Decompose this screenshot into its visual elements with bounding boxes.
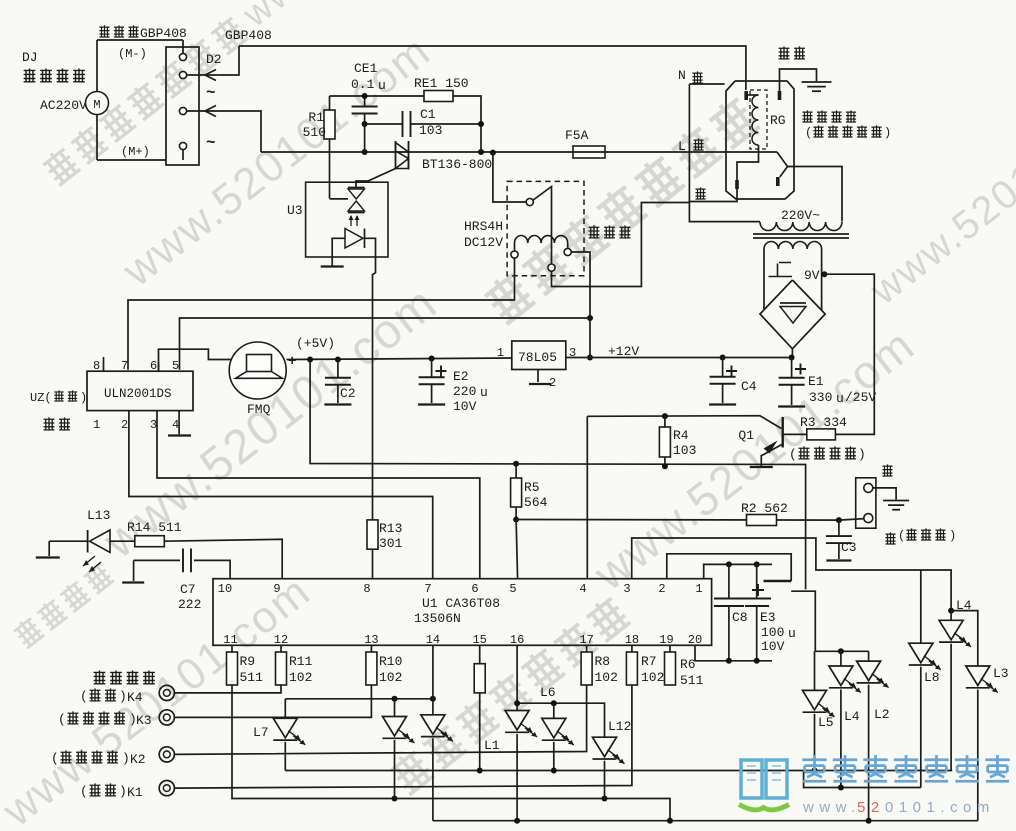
svg-text:HRS4H: HRS4H (464, 219, 503, 234)
node R4 bottom (662, 463, 668, 469)
svg-text:BT136-800: BT136-800 (422, 157, 492, 172)
svg-text:RG: RG (770, 113, 786, 128)
relay contact fixed (526, 198, 533, 205)
bridge rectifier diamond (760, 280, 825, 349)
svg-text:100: 100 (761, 625, 784, 640)
wire U3 led right down to R13 (365, 238, 376, 520)
key K2 倍速豆浆 (51, 747, 174, 767)
led L3 (951, 611, 1009, 821)
svg-text:R14 511: R14 511 (127, 520, 182, 535)
wire snubber top rail (330, 96, 482, 152)
svg-text:C8: C8 (732, 610, 748, 625)
capacitor CE1 (351, 61, 386, 152)
svg-text:103: 103 (673, 443, 696, 458)
label （防溢出） (898, 528, 956, 543)
svg-text:R11: R11 (289, 654, 313, 669)
connector 防溢出 probe (856, 478, 876, 528)
svg-text:(: ( (80, 784, 88, 799)
node R9 row L? (392, 796, 398, 802)
led L2 (857, 651, 890, 820)
svg-text:K2: K2 (130, 752, 146, 767)
svg-text:R8: R8 (595, 654, 611, 669)
motor M (86, 40, 109, 160)
svg-text:10V: 10V (761, 639, 785, 654)
svg-text:(: ( (58, 712, 66, 727)
svg-text:17: 17 (579, 633, 593, 647)
label UZ（贴片）驱动 (30, 390, 87, 430)
relay HRS4H dashed box (507, 181, 584, 275)
transformer primary (760, 222, 842, 231)
svg-text:20: 20 (688, 633, 702, 647)
svg-text:): ) (119, 784, 127, 799)
wire relay coil left to ULN pin7 (128, 258, 515, 370)
resistor pin15 unlabeled (474, 645, 485, 693)
node row2 L6 (551, 768, 557, 774)
triac BT136-800 (396, 141, 493, 172)
svg-text:102: 102 (289, 670, 312, 685)
svg-text:14: 14 (426, 633, 440, 647)
svg-text:R6: R6 (680, 657, 696, 672)
svg-text:R5: R5 (524, 480, 540, 495)
svg-text:222: 222 (178, 597, 201, 612)
svg-text:220: 220 (453, 384, 476, 399)
node +5V drop (307, 357, 313, 363)
svg-text:R1: R1 (308, 110, 324, 125)
svg-text:UZ(: UZ( (30, 391, 52, 405)
U1 pin numbers bottom (223, 633, 702, 647)
svg-text:220V~: 220V~ (781, 208, 820, 223)
relay coil (511, 236, 571, 259)
wire R2 row (516, 520, 839, 579)
led L13 (49, 508, 135, 572)
fuse F5A (565, 128, 605, 158)
opto-triac U3 (287, 182, 388, 257)
wire bridge out to +12V (791, 349, 793, 358)
wire socket bottom-left pin to bundle (689, 189, 737, 202)
ground L13 (36, 541, 60, 557)
svg-text:C1: C1 (420, 107, 436, 122)
U1 pin numbers top (218, 582, 703, 596)
node E1 (789, 355, 795, 361)
node row A mid (392, 696, 398, 702)
svg-text:78L05: 78L05 (518, 350, 557, 365)
svg-text:C3: C3 (841, 540, 857, 555)
svg-text:DJ: DJ (22, 50, 38, 65)
wire ULN pin3 to U1 pin6 (157, 411, 480, 579)
svg-text:): ) (119, 689, 127, 704)
node rail L2 (866, 818, 872, 824)
svg-text:10V: 10V (453, 399, 477, 414)
capacitor E2 electrolytic (418, 359, 488, 415)
svg-text:u: u (480, 385, 488, 400)
svg-text:CE1: CE1 (354, 61, 378, 76)
svg-text:K1: K1 (127, 785, 143, 800)
terminal block GBP408 (166, 40, 199, 165)
svg-text:): ) (858, 447, 866, 462)
capacitor C8 (714, 564, 748, 660)
bridge polarity mark (769, 263, 793, 277)
svg-text:(: ( (805, 126, 812, 140)
key K1 选择 (80, 781, 174, 801)
svg-text:E1: E1 (808, 374, 824, 389)
svg-text:/25V: /25V (845, 390, 876, 405)
svg-text:R9: R9 (240, 654, 256, 669)
svg-text:102: 102 (641, 670, 664, 685)
svg-text:R3 334: R3 334 (800, 415, 847, 430)
svg-text:C2: C2 (340, 386, 356, 401)
resistor R11 102 (276, 645, 313, 685)
svg-text:19: 19 (659, 633, 673, 647)
label 9V (804, 268, 820, 283)
resistor R6 511 (665, 645, 704, 688)
ULN pin labels top (93, 357, 179, 373)
svg-text:R7: R7 (641, 654, 657, 669)
node E3 top (754, 561, 760, 567)
svg-text:1: 1 (695, 582, 702, 596)
led L12 (593, 719, 632, 799)
wire heater bottom to pin (737, 145, 759, 180)
wire probe to earth (873, 488, 896, 500)
svg-text:13: 13 (364, 633, 378, 647)
U3 internal triac (348, 188, 365, 213)
label (M+) (121, 145, 150, 159)
label (+5V) (296, 336, 335, 351)
svg-text:L3: L3 (993, 666, 1009, 681)
wire U3 led left to ground (321, 238, 345, 266)
svg-text:6: 6 (471, 582, 478, 596)
svg-text:103: 103 (419, 123, 442, 138)
relay contact moving (548, 264, 555, 271)
node main line / relay (490, 150, 496, 156)
label HRS4H DC12V (464, 219, 503, 250)
svg-text:L7: L7 (253, 725, 269, 740)
node main line / RE1-C1 (478, 149, 484, 155)
capacitor C2 (324, 360, 355, 405)
wire 9V to R3 right (824, 274, 874, 434)
svg-text:L2: L2 (874, 707, 890, 722)
wire D2 to top (187, 46, 239, 81)
svg-text:+: + (288, 354, 296, 370)
node C2 (335, 357, 341, 363)
resistor R4 103 (659, 416, 696, 466)
socket pin bottom-right (776, 177, 780, 186)
label （过零检测） (789, 446, 866, 462)
label D2 (206, 52, 222, 67)
logo text 家电维修资料网 (802, 755, 1009, 781)
wire cable bundle vertical (689, 84, 760, 222)
wire E3 feed to L5 row (791, 591, 868, 651)
svg-text:511: 511 (680, 673, 704, 688)
svg-text:7: 7 (424, 582, 431, 596)
svg-text:11: 11 (223, 633, 237, 647)
svg-text:12: 12 (274, 633, 288, 647)
led mid unlabeled (383, 699, 415, 799)
wire R14 to U1 pin9 (164, 539, 282, 578)
svg-text:(+5V): (+5V) (296, 336, 335, 351)
label DJ 打浆电机 (22, 50, 85, 83)
heater RG dashed box (750, 90, 767, 149)
label 触摸按键 (94, 670, 155, 684)
capacitor C7 222 (134, 549, 231, 613)
node R5 top (513, 461, 519, 467)
wire node to +12V rail (587, 318, 593, 361)
svg-text:L6: L6 (540, 685, 556, 700)
wire R9 row (232, 685, 670, 821)
label 白 (695, 187, 705, 199)
logo url www.520101.com (802, 799, 995, 816)
svg-text:GBP408: GBP408 (140, 26, 187, 41)
svg-text:52: 52 (857, 799, 885, 816)
svg-text:E2: E2 (453, 369, 469, 384)
label 桶壁插座 (802, 110, 856, 122)
wire U3 internal left (330, 198, 349, 200)
svg-text:FMQ: FMQ (247, 402, 271, 417)
wire node to connector (839, 519, 865, 521)
wire +5V rail (287, 354, 512, 370)
wire motor box outline (97, 40, 183, 160)
svg-text:ULN2001DS: ULN2001DS (104, 387, 172, 401)
wire +12V rail (566, 357, 792, 359)
ground probe (883, 501, 909, 510)
svg-text:L5: L5 (818, 715, 834, 730)
svg-text:R13: R13 (379, 521, 402, 536)
wire pin1 to cap rail (704, 564, 772, 578)
node 9V (821, 271, 827, 277)
resistor R3 334 (800, 415, 847, 440)
svg-text:564: 564 (524, 495, 548, 510)
svg-text:AC220V: AC220V (40, 98, 87, 113)
svg-text:7: 7 (121, 359, 128, 373)
ground C7 (122, 560, 144, 582)
svg-text:www.: www. (802, 799, 861, 816)
svg-text:DC12V: DC12V (464, 235, 503, 250)
svg-text:K3: K3 (136, 713, 152, 728)
svg-text:GBP408: GBP408 (225, 28, 272, 43)
wire pin20 to cap bottoms (695, 645, 772, 664)
svg-text:301: 301 (379, 536, 403, 551)
wire K2 row (174, 685, 586, 754)
capacitor C1 103 (365, 107, 484, 138)
svg-text:4: 4 (172, 418, 179, 432)
socket octagon 桶壁插座 (726, 81, 794, 199)
label +12V (608, 344, 639, 359)
buzzer FMQ (229, 342, 286, 417)
resistor R1 (303, 96, 335, 199)
svg-text:8: 8 (93, 359, 100, 373)
wire ULN pin2 to U1 pin7 (129, 411, 433, 579)
svg-text:u: u (836, 391, 844, 406)
svg-text:L1: L1 (484, 738, 500, 753)
svg-text:E3: E3 (760, 610, 776, 625)
node row A pin14 (430, 696, 436, 702)
mcu U1 CA36T08 13506N (213, 579, 712, 646)
U3 internal led (345, 215, 365, 248)
svg-text:3: 3 (623, 582, 630, 596)
svg-text:0101.com: 0101.com (885, 799, 995, 816)
svg-text:1: 1 (93, 418, 100, 432)
led L5 (803, 651, 835, 770)
regulator 78L05 (497, 341, 576, 390)
key K4 启动 (80, 685, 174, 705)
wire ULN pin6 to FMQ (159, 349, 232, 371)
svg-text:16: 16 (510, 633, 524, 647)
led pin14 unlabeled (421, 645, 453, 820)
svg-text:5: 5 (172, 359, 179, 373)
led L4 mid (829, 651, 861, 787)
resistor R5 564 (511, 464, 548, 519)
resistor R2 562 (741, 501, 788, 526)
label GBP408 top (225, 28, 272, 43)
svg-text:2: 2 (121, 418, 128, 432)
node L4 right top (948, 608, 954, 614)
svg-text:(M-): (M-) (118, 47, 147, 61)
transistor Q1 (738, 417, 806, 466)
label L 红 (678, 138, 704, 154)
node relay/pin5 row (587, 315, 593, 321)
resistor R14 511 (127, 520, 182, 547)
bridge internal diode (780, 303, 806, 323)
svg-text:L4: L4 (844, 709, 860, 724)
wire +5V row (310, 360, 805, 590)
resistor R9 511 (227, 645, 264, 685)
resistor RE1 150 (414, 76, 469, 102)
label 整流桥GBP408 (99, 25, 186, 41)
label (M-) (118, 47, 147, 61)
svg-text:10: 10 (218, 582, 232, 596)
svg-text:R10: R10 (379, 654, 402, 669)
wire pin2 to E3 plus (667, 554, 791, 581)
ground earth 黄绿 (802, 82, 832, 91)
node rail R6 (667, 818, 673, 824)
node R5 bottom / pin5 (513, 517, 519, 523)
svg-text:1: 1 (497, 346, 504, 360)
wire AC input to main line (187, 106, 261, 153)
wire N to socket (689, 83, 724, 85)
resistor R10 102 (366, 645, 403, 685)
led L6 (540, 685, 574, 771)
socket pin top-right (778, 91, 782, 100)
label 蓝 probe (882, 464, 892, 476)
node C8 top (726, 561, 732, 567)
wire top-right pin to earth (780, 69, 817, 91)
svg-text:M: M (93, 98, 100, 112)
wire row B led tops (517, 645, 604, 737)
wire relay common from main line (493, 153, 526, 202)
wire K3 row (174, 685, 371, 717)
svg-text:L: L (678, 139, 686, 154)
wire relay coil right to +12V node (571, 252, 590, 315)
driver ULN2001DS (87, 371, 193, 410)
node main line / CE1 (362, 149, 368, 155)
svg-text:4: 4 (579, 582, 586, 596)
wire BT136 gate (356, 169, 396, 188)
wire pin3 to LED feed (632, 538, 951, 611)
ULN pin labels bottom (93, 418, 179, 432)
svg-text:(: ( (51, 751, 59, 766)
svg-text:RE1 150: RE1 150 (414, 76, 469, 91)
node row2 pin15 (477, 768, 483, 774)
svg-text:3: 3 (150, 418, 157, 432)
svg-text:(: ( (80, 689, 88, 704)
node L4mid top (838, 648, 844, 654)
transformer core (753, 234, 849, 238)
svg-text:13506N: 13506N (414, 611, 461, 626)
label 黄绿 (779, 46, 805, 59)
node segment L4mid (838, 785, 844, 791)
wire pin5 row (180, 318, 591, 370)
wire top GBP408 to socket (239, 46, 746, 90)
svg-text:15: 15 (472, 633, 486, 647)
svg-text:): ) (884, 126, 891, 140)
node row B L6 (551, 700, 557, 706)
label （内藏电热管） (805, 125, 891, 140)
svg-text:6: 6 (150, 359, 157, 373)
wire K4 row (174, 685, 281, 693)
svg-text:510: 510 (303, 125, 326, 140)
svg-text:C7: C7 (180, 582, 196, 597)
svg-text:u: u (378, 78, 386, 93)
ground Q1 emitter (750, 466, 773, 468)
svg-text:): ) (122, 751, 130, 766)
svg-text:9V: 9V (804, 268, 820, 283)
label 继电器 (589, 225, 631, 238)
capacitor E1 electrolytic (778, 358, 876, 407)
relay blade (533, 187, 551, 264)
wire L to socket pin and transformer (777, 152, 842, 222)
led L7 (253, 699, 305, 771)
resistor R7 102 (626, 645, 664, 685)
wire pin4 row (587, 416, 781, 579)
capacitor C4 (709, 358, 757, 405)
node row B pin16 (514, 700, 520, 706)
resistor R13 301 (367, 520, 403, 579)
label N 蓝 (678, 68, 703, 84)
svg-text:U3: U3 (287, 203, 303, 218)
svg-text:L12: L12 (608, 719, 631, 734)
node E2 (429, 356, 435, 362)
node C4 (720, 355, 726, 361)
wire main AC line (261, 151, 777, 153)
heater RG coil (746, 95, 758, 145)
ground ULN pin4 (168, 411, 191, 436)
label ~ upper (206, 84, 216, 102)
led L1 (484, 711, 537, 821)
socket pin top-left (744, 91, 748, 100)
svg-text:R2 562: R2 562 (741, 501, 788, 516)
label AC220V (40, 98, 87, 113)
label ~ lower (206, 134, 216, 152)
node R9 row L12 (602, 796, 608, 802)
svg-text:5: 5 (509, 582, 516, 596)
svg-text:~: ~ (206, 84, 216, 102)
wire lower right segment (804, 771, 921, 788)
svg-text:102: 102 (595, 670, 618, 685)
svg-text:2: 2 (658, 582, 665, 596)
svg-text:K4: K4 (127, 690, 143, 705)
node row2 L5 (812, 768, 818, 774)
svg-text:18: 18 (625, 633, 639, 647)
capacitor C3 (826, 520, 857, 560)
svg-text:U1 CA36T08: U1 CA36T08 (422, 596, 500, 611)
svg-text:N: N (678, 68, 686, 83)
svg-text:F5A: F5A (565, 128, 589, 143)
svg-text:102: 102 (379, 670, 402, 685)
svg-text:(: ( (898, 529, 905, 543)
svg-text:Q1: Q1 (738, 428, 754, 443)
wire bottom rail (433, 820, 978, 822)
key K3 快速豆浆 (58, 710, 174, 728)
svg-text:(M+): (M+) (121, 145, 150, 159)
